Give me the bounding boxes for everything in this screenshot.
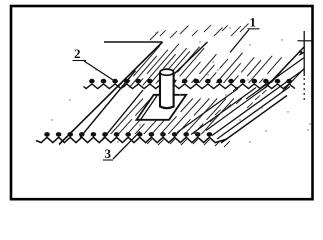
svg-text:3: 3	[105, 146, 112, 161]
svg-text:2: 2	[74, 46, 81, 61]
svg-text:1: 1	[250, 15, 257, 30]
